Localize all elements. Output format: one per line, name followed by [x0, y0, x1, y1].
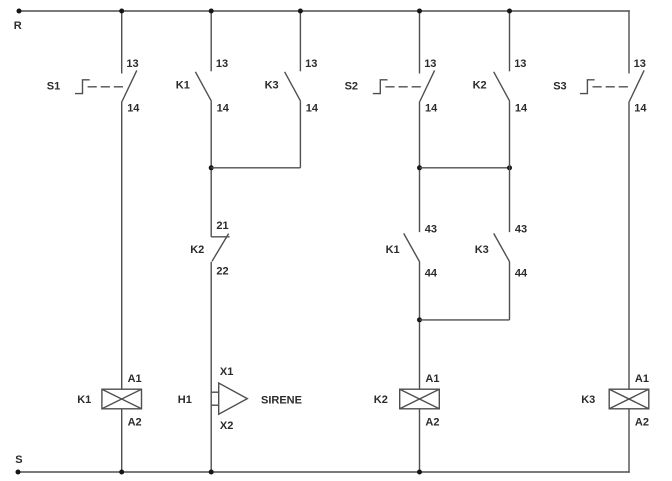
- pin 14 of K1 contact: [217, 102, 230, 114]
- pin 13 of S1: [126, 58, 138, 70]
- wire: K3 contact down to row1 connector: [299, 101, 301, 168]
- pin A1 of K2 coil: [425, 373, 439, 385]
- pin 13 of K1 contact: [216, 58, 228, 70]
- svg-text:13: 13: [216, 58, 228, 70]
- svg-text:K3: K3: [475, 244, 489, 256]
- wire: row2 parallel connector (col4-col5): [420, 319, 510, 321]
- label K3 (contact): [265, 79, 279, 91]
- label H1: [178, 394, 192, 406]
- wire: column6 from top rail corner to S3 contact: [628, 10, 630, 73]
- pin 44 of K1 aux: [425, 268, 438, 280]
- buzzer H1 (sirene): [211, 383, 247, 414]
- contact K1 (NO, 13-14): [195, 72, 211, 101]
- svg-text:A2: A2: [635, 416, 649, 428]
- node: junction column5 row1: [507, 165, 512, 170]
- pin A2 of K3 coil: [635, 416, 649, 428]
- node: junction top rail / column3: [298, 9, 303, 14]
- contact K3 (NO aux, 43-44): [494, 233, 510, 262]
- svg-text:14: 14: [634, 102, 647, 114]
- wire: K3 aux down to row2 connector: [509, 262, 511, 320]
- svg-text:X2: X2: [220, 420, 233, 432]
- svg-text:22: 22: [216, 265, 228, 277]
- pin X2 of H1: [220, 420, 233, 432]
- svg-text:K3: K3: [581, 394, 595, 406]
- contact K1 (NO aux, 43-44): [404, 233, 420, 262]
- pin 14 of K3 contact: [306, 102, 319, 114]
- svg-text:14: 14: [127, 102, 140, 114]
- svg-text:A1: A1: [425, 373, 439, 385]
- label K2 (NC contact): [190, 244, 204, 256]
- pin 13 of S3: [634, 58, 646, 70]
- switch S2 (NO pushbutton, latching actuator): [420, 70, 435, 101]
- label K2 (contact): [473, 79, 487, 91]
- pin 21 of K2 contact: [216, 220, 228, 232]
- svg-text:13: 13: [634, 58, 646, 70]
- svg-text:44: 44: [515, 268, 528, 280]
- pin A2 of K2 coil: [425, 416, 439, 428]
- S2 actuator (latching symbol + link): [373, 80, 423, 94]
- svg-text:S: S: [15, 454, 22, 466]
- switch S1 (NO pushbutton, latching actuator): [122, 70, 137, 101]
- pin 13 of K3 contact: [305, 58, 317, 70]
- svg-text:K1: K1: [77, 394, 91, 406]
- svg-text:X1: X1: [220, 366, 233, 378]
- wire: column2 top rail to K1 contact: [210, 11, 212, 71]
- pin 14 of K2 contact: [515, 102, 528, 114]
- svg-text:K2: K2: [473, 79, 487, 91]
- node: junction top rail / column1: [119, 9, 124, 14]
- svg-text:K2: K2: [374, 394, 388, 406]
- wire: column5 top rail to K2 contact: [509, 11, 511, 71]
- node: junction bottom rail / column2: [209, 470, 214, 475]
- pin 14 of S1: [127, 102, 140, 114]
- svg-text:43: 43: [515, 224, 527, 236]
- contact K2 (NO, 13-14): [494, 72, 510, 101]
- pin 43 of K3 aux: [515, 224, 527, 236]
- label K3 (coil): [581, 394, 595, 406]
- wire: K2 contact to K3 aux contact: [509, 101, 511, 232]
- label S: [15, 454, 22, 466]
- label S2: [345, 80, 358, 92]
- node: S rail left terminal: [16, 470, 21, 475]
- svg-text:SIRENE: SIRENE: [261, 394, 302, 406]
- wire: row1 parallel connector (col4-col5): [420, 167, 510, 169]
- svg-text:S2: S2: [345, 80, 358, 92]
- contact K2 (NC, 21-22): [211, 234, 229, 262]
- svg-text:44: 44: [425, 268, 438, 280]
- node: R rail left terminal: [17, 9, 22, 14]
- label K1 (contact): [176, 79, 190, 91]
- svg-text:13: 13: [514, 58, 526, 70]
- svg-text:21: 21: [216, 220, 228, 232]
- svg-text:13: 13: [424, 58, 436, 70]
- wire: K1 coil to bottom rail: [121, 409, 123, 472]
- label SIRENE: [261, 394, 302, 406]
- label S3: [553, 80, 566, 92]
- pin 43 of K1 aux: [425, 224, 437, 236]
- wire: S2 to K1 aux contact: [419, 101, 421, 232]
- pin 13 of K2 contact: [514, 58, 526, 70]
- pin 22 of K2 contact: [216, 265, 228, 277]
- svg-text:14: 14: [425, 102, 438, 114]
- pin 14 of S2: [425, 102, 438, 114]
- S3 actuator (latching symbol + link): [580, 80, 629, 94]
- label K1 (coil): [77, 394, 91, 406]
- svg-text:13: 13: [305, 58, 317, 70]
- node: junction column4 row1: [417, 165, 422, 170]
- svg-text:A2: A2: [128, 416, 142, 428]
- node: junction bottom rail / column4: [417, 470, 422, 475]
- wire: K2 coil to bottom rail: [419, 409, 421, 472]
- wire: column1 top rail to S1 contact: [121, 11, 123, 74]
- pin A1 of K3 coil: [635, 373, 649, 385]
- label K3 (aux contact): [475, 244, 489, 256]
- svg-text:A1: A1: [635, 373, 649, 385]
- label R: [14, 20, 22, 32]
- wire: S1 to K1 coil: [121, 101, 123, 389]
- pin 44 of K3 aux: [515, 268, 528, 280]
- coil K3: [609, 389, 649, 409]
- switch S3 (NO pushbutton, latching actuator): [629, 70, 644, 101]
- node: junction top rail / column4: [417, 9, 422, 14]
- svg-text:H1: H1: [178, 394, 192, 406]
- svg-text:13: 13: [126, 58, 138, 70]
- svg-text:K3: K3: [265, 79, 279, 91]
- node: junction column2 row1: [209, 165, 214, 170]
- svg-text:14: 14: [515, 102, 528, 114]
- svg-text:A1: A1: [128, 373, 142, 385]
- svg-text:K1: K1: [386, 244, 400, 256]
- wire: row1 parallel connector (col2-col3): [211, 167, 300, 169]
- pin A1 of K1 coil: [128, 373, 142, 385]
- wire: S3 to K3 coil: [628, 101, 630, 389]
- top rail R: [19, 10, 630, 12]
- pin 13 of S2: [424, 58, 436, 70]
- node: junction bottom rail / column1: [119, 470, 124, 475]
- S1 actuator (latching symbol + link): [75, 80, 125, 94]
- node: junction top rail / column5: [507, 9, 512, 14]
- wire: K2 contact to H1 and bottom rail: [210, 262, 212, 472]
- svg-text:14: 14: [217, 102, 230, 114]
- coil K1: [102, 389, 142, 409]
- svg-text:A2: A2: [425, 416, 439, 428]
- svg-text:K2: K2: [190, 244, 204, 256]
- wire: K1 aux to K2 coil: [419, 262, 421, 389]
- svg-text:43: 43: [425, 224, 437, 236]
- svg-text:S1: S1: [47, 80, 60, 92]
- svg-text:K1: K1: [176, 79, 190, 91]
- wire: column4 top rail to S2 contact: [419, 11, 421, 74]
- node: junction column4 row2: [417, 317, 422, 322]
- contact K3 (NO, 13-14): [285, 72, 301, 101]
- node: junction top rail / column2: [209, 9, 214, 14]
- svg-text:S3: S3: [553, 80, 566, 92]
- label S1: [47, 80, 60, 92]
- svg-text:R: R: [14, 20, 22, 32]
- coil K2: [400, 389, 440, 409]
- pin A2 of K1 coil: [128, 416, 142, 428]
- wire: column3 top rail to K3 contact: [299, 11, 301, 71]
- pin X1 of H1: [220, 366, 233, 378]
- pin 14 of S3: [634, 102, 647, 114]
- label K1 (aux contact): [386, 244, 400, 256]
- wire: K3 coil to bottom rail: [628, 409, 630, 473]
- bottom rail S: [18, 471, 630, 473]
- svg-text:14: 14: [306, 102, 319, 114]
- wire: K1 contact to K2 NC contact: [210, 101, 212, 237]
- label K2 (coil): [374, 394, 388, 406]
